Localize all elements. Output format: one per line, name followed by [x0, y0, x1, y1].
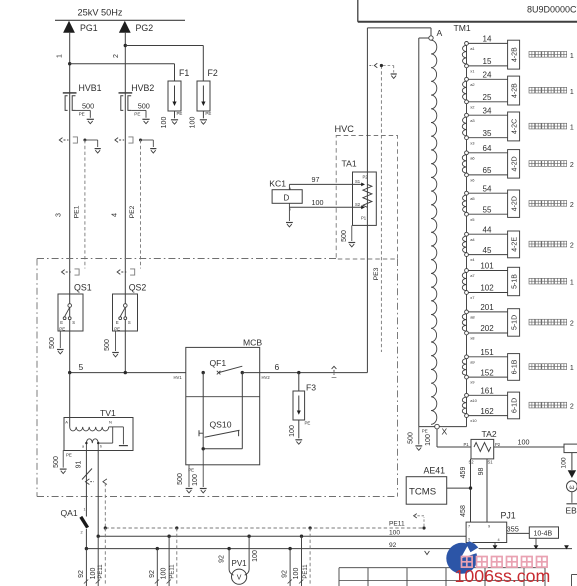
svg-text:98: 98	[478, 468, 485, 476]
svg-text:F2: F2	[208, 68, 218, 78]
voltmeter PV1	[228, 549, 230, 570]
svg-text:35: 35	[483, 129, 492, 138]
svg-text:92: 92	[78, 570, 85, 578]
svg-text:24: 24	[483, 71, 492, 80]
svg-text:PE: PE	[114, 327, 120, 332]
svg-text:P1: P1	[464, 442, 470, 447]
svg-text:x2: x2	[470, 104, 475, 109]
ground connector1	[95, 148, 101, 150]
svg-text:b: b	[100, 445, 102, 449]
label to train supply 2	[529, 402, 535, 408]
svg-text:25kV 50Hz: 25kV 50Hz	[78, 8, 123, 18]
label to traction conv 2	[529, 241, 535, 247]
svg-text:100: 100	[561, 457, 568, 469]
svg-text:34: 34	[483, 106, 492, 115]
terminal box 5-1B	[508, 267, 520, 295]
svg-text:92: 92	[149, 570, 156, 578]
svg-text:2: 2	[570, 202, 574, 209]
svg-text:100: 100	[293, 568, 300, 580]
svg-text:a3: a3	[470, 118, 475, 123]
svg-text:500: 500	[82, 101, 94, 110]
svg-text:8U9D0000CY1: 8U9D0000CY1	[527, 4, 577, 14]
svg-text:4-2E: 4-2E	[512, 237, 519, 252]
svg-text:QF1: QF1	[210, 358, 227, 368]
ground connector2	[150, 148, 156, 150]
ground QS10 (100)	[202, 449, 204, 487]
svg-text:6-1D: 6-1D	[512, 398, 519, 413]
svg-text:HVB2: HVB2	[131, 83, 154, 93]
svg-text:PE11: PE11	[98, 564, 104, 579]
ground at X (500)	[418, 427, 420, 445]
svg-text:ω: ω	[569, 484, 574, 491]
svg-text:P2: P2	[495, 442, 501, 447]
svg-text:4: 4	[109, 213, 118, 217]
TM1 secondary winding a6/x6 (64/65)	[462, 155, 466, 173]
svg-text:4-2D: 4-2D	[512, 156, 519, 171]
svg-text:a8: a8	[470, 315, 475, 320]
svg-text:S2: S2	[355, 202, 361, 207]
TM1 secondary winding a10/x10 (161/162)	[462, 397, 466, 414]
svg-text:x8: x8	[470, 336, 475, 341]
svg-text:500: 500	[49, 337, 56, 349]
svg-text:x7: x7	[470, 295, 475, 300]
earth wire PE1 (dashed)	[84, 140, 86, 269]
label to aux conv 2	[529, 319, 535, 325]
svg-text:PE: PE	[66, 453, 72, 458]
wire node6	[242, 372, 367, 374]
svg-text:KC1: KC1	[269, 178, 286, 188]
terminal box 4-2B	[508, 76, 520, 105]
TM1 secondary winding a1/x1 (14/15)	[462, 45, 466, 64]
svg-text:E: E	[116, 320, 119, 325]
svg-text:a7: a7	[470, 273, 475, 278]
TA1 winding	[363, 184, 372, 207]
ground QS2	[112, 352, 119, 354]
svg-text:QS2: QS2	[129, 283, 147, 293]
roof connector wire2	[115, 138, 118, 143]
svg-text:TCMS: TCMS	[409, 487, 436, 498]
title block	[357, 0, 359, 22]
wire 100 to EB	[494, 446, 564, 448]
svg-text:E: E	[60, 320, 63, 325]
label to traction conv 1	[529, 87, 535, 93]
node A	[429, 36, 433, 40]
drop wires bundle2	[156, 549, 158, 586]
ground F2	[200, 119, 207, 121]
svg-text:6-1B: 6-1B	[512, 359, 519, 374]
svg-text:15: 15	[483, 57, 492, 66]
svg-text:1: 1	[84, 508, 86, 512]
svg-text:x3: x3	[470, 140, 475, 145]
pantograph PG2	[119, 21, 131, 33]
svg-text:45: 45	[483, 246, 492, 255]
ground F1	[171, 119, 178, 121]
svg-text:54: 54	[483, 184, 492, 193]
svg-text:HV2: HV2	[262, 375, 271, 380]
svg-text:AE41: AE41	[424, 465, 446, 475]
svg-text:X: X	[442, 427, 448, 437]
wire 100 from TV1	[97, 450, 99, 536]
svg-text:TV1: TV1	[100, 408, 116, 418]
svg-text:2: 2	[570, 243, 574, 250]
svg-text:PE: PE	[177, 111, 183, 116]
svg-text:S1: S1	[488, 460, 494, 465]
svg-text:5-1B: 5-1B	[512, 274, 519, 289]
svg-text:500: 500	[138, 101, 150, 110]
roof connector wire1	[59, 138, 62, 143]
svg-text:x10: x10	[470, 418, 477, 423]
svg-text:QS1: QS1	[74, 283, 92, 293]
svg-text:TM1: TM1	[454, 23, 471, 33]
svg-text:25: 25	[483, 93, 492, 102]
TM1 secondary rail	[466, 43, 468, 426]
svg-text:1: 1	[570, 125, 574, 132]
svg-text:355: 355	[507, 525, 519, 534]
watermark logo	[446, 541, 481, 574]
ground QS1	[57, 349, 64, 351]
svg-text:100: 100	[289, 425, 296, 437]
wire 459 (TA2 S2 down)	[470, 459, 472, 522]
ground PE3	[391, 73, 397, 75]
svg-text:P1: P1	[361, 216, 367, 221]
svg-text:PE11: PE11	[170, 564, 176, 579]
earth bus PE11 (dashed)	[105, 527, 424, 529]
svg-text:202: 202	[480, 324, 494, 333]
svg-text:9: 9	[488, 525, 490, 529]
svg-text:a9: a9	[470, 359, 475, 364]
svg-text:151: 151	[480, 348, 494, 357]
svg-text:PV1: PV1	[232, 559, 248, 568]
ground TA1 (500)	[351, 225, 353, 241]
svg-text:a4: a4	[470, 237, 475, 242]
watermark text cn	[462, 557, 473, 568]
svg-text:500: 500	[53, 456, 60, 468]
svg-text:100: 100	[389, 530, 400, 537]
box 10-4B	[529, 527, 558, 538]
svg-text:PE1: PE1	[73, 205, 80, 218]
svg-text:PG1: PG1	[80, 23, 98, 33]
terminal box 4-2D	[508, 190, 520, 217]
svg-text:65: 65	[483, 166, 492, 175]
svg-text:a6: a6	[470, 155, 475, 160]
svg-text:55: 55	[483, 205, 492, 214]
svg-text:500: 500	[341, 230, 348, 242]
svg-text:4-2B: 4-2B	[512, 83, 519, 98]
svg-text:PE11: PE11	[389, 520, 405, 527]
TM1 secondary winding a5/x5 (54/55)	[462, 195, 466, 212]
TM1 secondary winding a8/x8 (201/202)	[462, 314, 466, 331]
svg-text:QS10: QS10	[210, 420, 232, 430]
svg-text:PE: PE	[79, 111, 85, 116]
bottom terminal table	[339, 567, 545, 569]
svg-text:44: 44	[483, 225, 492, 234]
svg-text:459: 459	[460, 467, 467, 479]
label to traction conv 2	[529, 201, 535, 207]
label to traction conv 2	[529, 161, 535, 167]
svg-text:1: 1	[570, 365, 574, 372]
bus 92	[86, 548, 572, 550]
wire 355	[507, 532, 530, 534]
terminal box 4-2B	[508, 40, 520, 69]
earth brush EB1	[571, 453, 573, 470]
svg-text:92: 92	[389, 542, 397, 549]
TV1 secondary winding	[86, 439, 98, 443]
TM1 secondary winding a9/x9 (151/152)	[462, 359, 466, 376]
svg-text:x5: x5	[470, 217, 475, 222]
svg-text:100: 100	[161, 568, 168, 580]
connector above QS2	[117, 270, 120, 275]
svg-text:162: 162	[480, 407, 494, 416]
pantograph PG1	[63, 21, 75, 33]
earth wire PE2 (dashed)	[140, 140, 142, 269]
wire AE41 to 459	[447, 487, 471, 489]
wire node2 to F2	[125, 45, 203, 47]
svg-text:x9: x9	[470, 380, 475, 385]
svg-text:100: 100	[90, 568, 97, 580]
earth wire PE11 start (dashed)	[104, 483, 106, 528]
svg-text:PE2: PE2	[129, 205, 136, 218]
svg-text:PG2: PG2	[136, 23, 154, 33]
TM1 secondary winding a4/x4 (44/45)	[462, 236, 466, 253]
svg-text:5-1D: 5-1D	[512, 315, 519, 330]
svg-text:A: A	[437, 28, 443, 38]
svg-text:64: 64	[483, 144, 492, 153]
drop wires bundle3	[289, 549, 291, 586]
svg-text:458: 458	[460, 505, 467, 517]
node X	[435, 424, 440, 429]
svg-text:100: 100	[425, 434, 432, 446]
svg-text:500: 500	[177, 473, 184, 485]
svg-text:1: 1	[570, 280, 574, 287]
svg-text:PE: PE	[305, 421, 311, 426]
label to train supply 1	[529, 364, 535, 370]
svg-text:500: 500	[408, 432, 415, 444]
drop wires bundle1	[85, 549, 87, 586]
svg-text:161: 161	[480, 387, 494, 396]
svg-text:TA2: TA2	[482, 429, 497, 439]
svg-text:F3: F3	[306, 383, 316, 393]
svg-text:A: A	[65, 419, 68, 424]
svg-text:100: 100	[518, 437, 530, 446]
svg-text:91: 91	[76, 461, 83, 469]
svg-text:x4: x4	[470, 257, 475, 262]
earth wire PE3 (dashed)	[380, 66, 382, 353]
svg-text:QA1: QA1	[61, 508, 78, 518]
connector above QS1	[62, 270, 65, 275]
connector PE3 top	[374, 63, 377, 67]
arrow marks on bus 92	[493, 545, 498, 549]
svg-text:14: 14	[483, 35, 492, 44]
svg-text:101: 101	[480, 262, 494, 271]
svg-text:a5: a5	[470, 196, 475, 201]
fuse switch on wire 91	[82, 469, 92, 480]
wire 98 (TA2 S1 down)	[486, 459, 488, 522]
connector on wire at HVC boundary	[332, 366, 337, 369]
svg-text:S: S	[128, 320, 131, 325]
svg-text:4-2D: 4-2D	[512, 196, 519, 211]
svg-text:1: 1	[570, 89, 574, 96]
svg-text:a: a	[82, 445, 84, 449]
svg-text:500: 500	[104, 339, 111, 351]
svg-text:2: 2	[570, 404, 574, 411]
machine room border (dash-dot)	[37, 258, 336, 260]
ground F3	[295, 439, 302, 441]
wire 2 (PG2 down)	[124, 33, 126, 294]
label to traction conv 1	[529, 123, 535, 129]
connector pair below TV1	[85, 479, 89, 485]
terminal box 4-2E	[508, 231, 520, 258]
svg-text:201: 201	[480, 303, 494, 312]
svg-text:4-2B: 4-2B	[512, 47, 519, 62]
ground MCB case (500)	[188, 465, 190, 487]
svg-text:PE: PE	[422, 429, 428, 434]
svg-text:10-4B: 10-4B	[534, 531, 553, 538]
svg-text:100: 100	[190, 117, 197, 129]
svg-text:x1: x1	[470, 69, 475, 74]
ground HVB2	[142, 118, 149, 120]
wire 97	[289, 183, 361, 185]
svg-text:1: 1	[570, 53, 574, 60]
svg-text:100: 100	[312, 198, 324, 207]
svg-text:PJ1: PJ1	[501, 510, 516, 520]
svg-text:HVB1: HVB1	[79, 83, 102, 93]
svg-text:S: S	[72, 320, 75, 325]
svg-text:3: 3	[468, 538, 470, 542]
svg-text:HV1: HV1	[174, 375, 183, 380]
svg-text:92: 92	[282, 570, 289, 578]
svg-text:F1: F1	[179, 68, 189, 78]
wire to node A	[367, 27, 431, 29]
node 5 bus	[70, 372, 186, 374]
svg-text:100: 100	[161, 117, 168, 129]
svg-text:PE: PE	[134, 111, 140, 116]
label to traction conv 1	[529, 51, 535, 57]
svg-text:100: 100	[252, 550, 259, 562]
svg-text:92: 92	[219, 555, 226, 563]
svg-text:N: N	[109, 419, 112, 424]
svg-text:2: 2	[81, 531, 83, 535]
svg-text:a2: a2	[470, 82, 475, 87]
TM1 secondary winding a2/x2 (24/25)	[462, 81, 466, 100]
svg-text:102: 102	[480, 284, 494, 293]
catenary 25kV 50Hz	[55, 19, 185, 21]
svg-text:2: 2	[570, 321, 574, 328]
svg-text:PE: PE	[205, 111, 211, 116]
svg-text:5: 5	[79, 362, 84, 372]
wire 1 (PG1 down)	[69, 33, 71, 294]
svg-text:TA1: TA1	[342, 159, 357, 169]
svg-text:PE: PE	[59, 327, 65, 332]
svg-text:a10: a10	[470, 398, 477, 403]
bus 100	[98, 535, 466, 537]
svg-text:S1: S1	[355, 179, 361, 184]
svg-text:100: 100	[192, 474, 199, 486]
TM1 secondary winding a3/x3 (34/35)	[462, 117, 466, 136]
TM1 primary winding	[431, 40, 437, 424]
wire 100 (KC1)	[289, 206, 361, 208]
ground TV1 case (500)	[62, 450, 64, 467]
svg-text:4-2C: 4-2C	[512, 119, 519, 134]
ground HVB1	[87, 118, 94, 120]
wire node1 to F1	[70, 63, 175, 65]
svg-text:a1: a1	[470, 46, 475, 51]
svg-text:2: 2	[113, 54, 120, 58]
svg-text:x6: x6	[470, 178, 475, 183]
resistor box right edge	[564, 444, 577, 453]
terminal box 4-2D	[508, 150, 520, 179]
svg-text:2: 2	[570, 162, 574, 169]
corner box fragment	[571, 575, 573, 586]
terminal box 6-1D	[508, 392, 520, 419]
TM1 primary left rail	[419, 37, 429, 39]
svg-text:4: 4	[498, 538, 500, 542]
terminal box 4-2C	[508, 112, 520, 141]
wire 100 from X	[436, 429, 438, 447]
svg-text:152: 152	[480, 368, 494, 377]
label to aux conv 1	[529, 278, 535, 284]
svg-text:97: 97	[312, 175, 320, 184]
svg-text:7: 7	[468, 525, 470, 529]
main HV wire vertical	[366, 28, 368, 373]
svg-text:HVC: HVC	[335, 124, 355, 134]
svg-text:1006ss.com: 1006ss.com	[455, 566, 551, 586]
svg-text:EB1: EB1	[566, 506, 577, 516]
terminal box 5-1D	[508, 309, 520, 337]
ground KC1	[288, 207, 290, 221]
svg-text:6: 6	[275, 362, 280, 372]
svg-text:3: 3	[54, 213, 63, 217]
svg-text:V: V	[237, 575, 242, 582]
terminal box 6-1B	[508, 354, 520, 381]
wire 91 from TV1	[85, 450, 87, 516]
svg-text:S2: S2	[469, 460, 475, 465]
svg-text:PE3: PE3	[373, 267, 380, 280]
connector PE11 end	[423, 517, 425, 526]
svg-text:1: 1	[57, 54, 64, 58]
svg-text:D: D	[284, 193, 290, 202]
svg-text:PE: PE	[188, 468, 194, 473]
svg-text:PE11: PE11	[303, 564, 309, 579]
svg-text:MCB: MCB	[243, 338, 262, 348]
TM1 secondary winding a7/x7 (101/102)	[462, 272, 466, 290]
svg-text:P2: P2	[363, 175, 369, 180]
